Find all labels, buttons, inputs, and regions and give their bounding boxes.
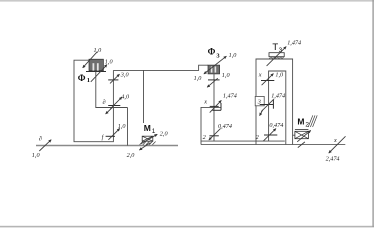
- svg-text:M: M: [144, 123, 151, 133]
- outer rect right edge lower: [292, 135, 294, 144]
- place F1 box: [89, 59, 103, 70]
- svg-text:1,0: 1,0: [222, 72, 231, 79]
- svg-text:1,474: 1,474: [223, 93, 237, 100]
- right baseline wire: [201, 144, 345, 146]
- T3 slash arrow: [267, 47, 287, 66]
- main axis wire: [36, 145, 178, 147]
- svg-text:Ф: Ф: [208, 47, 216, 57]
- place F3 box: [208, 65, 220, 74]
- transition x right tick: [261, 80, 274, 82]
- F1 under slash: [91, 68, 104, 81]
- svg-text:T: T: [272, 42, 278, 53]
- svg-text:1,474: 1,474: [271, 93, 285, 100]
- bottom window border: [0, 226, 374, 228]
- transition 3 out arrow: [260, 110, 263, 116]
- M1 hatching: [140, 142, 156, 145]
- svg-text:∂: ∂: [39, 135, 42, 142]
- svg-text:3: 3: [279, 47, 283, 54]
- svg-text:Ф: Ф: [78, 73, 86, 83]
- transition f tick: [106, 135, 115, 137]
- right window border: [372, 0, 373, 227]
- transition 3,0 slash: [110, 74, 120, 83]
- output transition slash: [329, 136, 346, 153]
- wire drop to M1: [143, 70, 145, 123]
- transition 4,0 slash: [110, 97, 122, 109]
- svg-text:x: x: [203, 98, 207, 105]
- input transition slash: [39, 140, 51, 151]
- wire below F1 box: [96, 72, 128, 108]
- transition x slash: [210, 100, 222, 112]
- svg-text:1,0: 1,0: [275, 71, 284, 78]
- F1 output arrow: [103, 65, 107, 70]
- left inner rect: [201, 107, 285, 144]
- transition 3,0 tick: [108, 79, 118, 81]
- svg-text:2,0: 2,0: [160, 131, 169, 138]
- transition x right slash: [262, 74, 274, 86]
- T3 hatching: [269, 57, 284, 59]
- svg-text:1,0: 1,0: [118, 123, 127, 130]
- svg-text:1,0: 1,0: [32, 152, 41, 159]
- F3 under slash arrow: [207, 78, 218, 87]
- wire from corner to right group: [113, 65, 208, 70]
- transition 2 left slash: [209, 128, 221, 140]
- F1 input arrow: [83, 52, 98, 68]
- transition f slash: [108, 129, 119, 140]
- timer T3 box: [269, 53, 284, 57]
- inner right rect: [269, 71, 286, 145]
- svg-text:1,0: 1,0: [229, 52, 238, 59]
- svg-text:1: 1: [152, 128, 156, 135]
- svg-text:1,474: 1,474: [287, 40, 301, 47]
- svg-text:1,0: 1,0: [94, 47, 103, 54]
- transition x tick: [210, 105, 219, 107]
- F3 diagonal arrow down: [204, 66, 214, 74]
- outer rect right group: [256, 59, 295, 145]
- transition 4,0 tick: [108, 105, 120, 107]
- svg-text:1: 1: [87, 77, 90, 84]
- M2 down slash: [298, 142, 305, 148]
- left rect wire: [74, 60, 113, 142]
- svg-text:2,474: 2,474: [326, 156, 340, 163]
- transition 3 bracket: [272, 100, 274, 109]
- F1 base bar: [86, 71, 106, 73]
- M1 out arrow: [141, 134, 157, 144]
- svg-text:x: x: [258, 71, 262, 78]
- svg-text:∂: ∂: [103, 99, 106, 106]
- svg-text:1,0: 1,0: [105, 58, 114, 65]
- svg-text:2,0: 2,0: [127, 152, 136, 159]
- transition x bracket: [220, 103, 222, 110]
- M2 out arrow: [297, 131, 311, 142]
- M1 down arrow: [139, 143, 150, 150]
- transition 2 right slash: [263, 129, 276, 142]
- transition 3 tick: [260, 104, 273, 106]
- M2 hatching: [308, 115, 317, 127]
- transition x tick2: [212, 109, 221, 111]
- svg-text:2: 2: [203, 134, 206, 141]
- M2 top bar: [295, 128, 309, 130]
- wire below F3: [213, 74, 215, 141]
- svg-text:3,0: 3,0: [120, 71, 130, 78]
- transition 3 slash: [261, 99, 274, 112]
- memory M2 box: [295, 131, 309, 138]
- transition 4,0 out arrow: [106, 107, 113, 114]
- transition 2 right tick: [264, 134, 277, 136]
- svg-text:4,0: 4,0: [121, 94, 130, 101]
- memory M1 box: [142, 136, 153, 141]
- svg-text:M: M: [297, 117, 304, 127]
- F3 diagonal arrow up: [214, 56, 227, 66]
- transition 2 left tick: [209, 135, 218, 137]
- F3 under tick: [208, 79, 220, 81]
- svg-text:2: 2: [256, 134, 259, 141]
- wire drop to main axis: [127, 108, 129, 146]
- svg-text:x: x: [333, 137, 337, 144]
- top window border: [0, 0, 374, 2]
- svg-text:1,0: 1,0: [194, 75, 203, 82]
- transition 3 box: [255, 96, 264, 105]
- svg-text:0,474: 0,474: [269, 122, 283, 129]
